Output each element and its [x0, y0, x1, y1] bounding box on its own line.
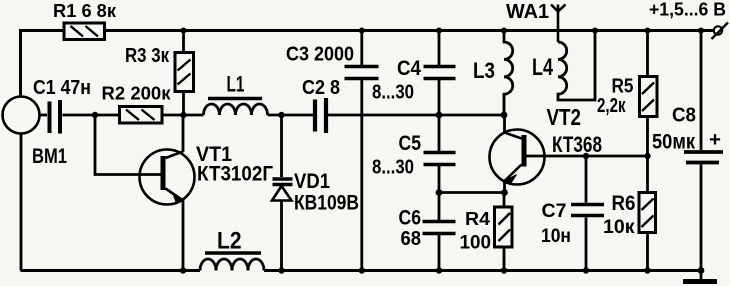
wire: VT2 base line: [527, 155, 648, 158]
svg-text:L3: L3: [473, 58, 495, 83]
svg-text:L4: L4: [532, 54, 553, 81]
capacitor C1: [40, 100, 120, 134]
capacitor C8 (electrolytic): [684, 31, 723, 271]
node B (R2/R3/VT1 collector/L1): [180, 112, 186, 118]
capacitor C7: [571, 156, 604, 271]
svg-text:100: 100: [460, 233, 492, 254]
resistor R3: [175, 53, 194, 92]
node: R5/R6/base junction: [644, 153, 650, 159]
node: VD1 top: [278, 112, 284, 118]
svg-text:50мк: 50мк: [652, 131, 695, 154]
svg-text:КТ368: КТ368: [552, 132, 602, 157]
svg-text:10к: 10к: [603, 217, 635, 238]
svg-text:+1,5...6 В: +1,5...6 В: [649, 0, 726, 20]
node: signal/C4 junction: [436, 112, 443, 119]
wire: bottom rail right: [264, 269, 704, 272]
node: L3 top rail: [501, 28, 507, 34]
node: C8 bottom rail: [698, 267, 705, 274]
svg-text:C5: C5: [399, 132, 422, 155]
node: C7 top: [583, 153, 589, 159]
transistor VT2: [490, 115, 545, 193]
antenna WA1: [551, 5, 566, 43]
battery negative terminal bar: [683, 271, 717, 282]
svg-text:R2 200к: R2 200к: [102, 84, 172, 104]
node: C3 top rail: [359, 28, 365, 34]
wire: node to VD1: [280, 115, 283, 177]
capacitor C6: [423, 193, 456, 271]
wire: C4 node to VT2 collector node: [439, 114, 504, 117]
varicap VD1: [272, 179, 293, 271]
resistor R6: [639, 156, 656, 271]
wire: R2 right to node B: [162, 114, 204, 117]
capacitor C2: [315, 98, 439, 133]
inductor L1: [204, 99, 268, 116]
node A (C1/R2/base junction): [92, 112, 98, 118]
node: L4 return on top rail: [592, 28, 598, 34]
svg-text:C3 2000: C3 2000: [286, 44, 354, 66]
node: C7 bottom rail: [583, 267, 589, 273]
node: VT2 emitter junction: [501, 189, 508, 196]
svg-text:10н: 10н: [541, 226, 571, 247]
node: C4 top rail: [436, 28, 442, 34]
svg-text:КТ3102Г: КТ3102Г: [197, 163, 273, 186]
terminal +1,5...6В (circle with slash): [712, 23, 729, 40]
node on top rail: R3 column: [181, 28, 187, 34]
svg-text:68: 68: [401, 228, 422, 250]
resistor R2: [120, 107, 163, 124]
node: C8 top rail: [698, 28, 704, 34]
svg-text:C2 8: C2 8: [302, 77, 340, 99]
svg-text:VT2: VT2: [547, 104, 582, 130]
node: C6 bottom rail: [436, 267, 442, 273]
svg-text:WA1: WA1: [506, 1, 549, 23]
node: VT1 emitter on bottom rail: [180, 267, 186, 273]
wire: bottom rail left: [21, 269, 201, 272]
wire: node A down to VT1 base: [95, 115, 161, 175]
resistor R5: [640, 31, 658, 157]
wire: top rail to R3: [182, 31, 185, 53]
inductor L2: [200, 253, 264, 271]
inductor L4: [558, 31, 595, 101]
capacitor C3 (supply bypass): [345, 31, 379, 271]
svg-text:ВМ1: ВМ1: [32, 145, 67, 168]
svg-text:R3 3к: R3 3к: [125, 45, 170, 67]
svg-text:R6: R6: [612, 192, 636, 215]
svg-text:L2: L2: [217, 228, 242, 255]
svg-text:R1 6 8к: R1 6 8к: [53, 1, 117, 21]
node: VD1 bottom rail: [278, 267, 284, 273]
resistor R1: [64, 23, 105, 40]
node: R4 bottom rail: [501, 267, 507, 273]
wire: top rail left segment: [21, 31, 65, 97]
svg-text:8...30: 8...30: [372, 157, 414, 179]
wire: to VT2 emitter: [439, 191, 505, 194]
node: R5 top rail: [645, 28, 651, 34]
svg-text:L1: L1: [227, 72, 245, 97]
node: C5/C6/emitter junction: [436, 189, 443, 196]
capacitor C4: [424, 31, 456, 116]
svg-text:2,2к: 2,2к: [597, 95, 626, 117]
svg-text:+: +: [709, 129, 721, 151]
microphone BM1: [3, 97, 40, 134]
wire: L1 to C2: [268, 114, 314, 117]
svg-text:8...30: 8...30: [372, 82, 414, 104]
svg-text:C8: C8: [672, 105, 696, 127]
svg-text:C7: C7: [542, 201, 567, 222]
wire: R3 bottom to node B: [182, 92, 185, 116]
transistor VT1: [140, 115, 195, 271]
svg-text:VD1: VD1: [294, 170, 330, 193]
svg-text:R4: R4: [465, 209, 490, 229]
inductor L3: [504, 31, 513, 116]
svg-text:C4: C4: [397, 57, 421, 80]
resistor R4: [495, 193, 513, 271]
node: collector/L3/signal junction: [501, 112, 508, 119]
node: C3 bottom rail: [359, 267, 365, 273]
capacitor C5: [424, 115, 456, 193]
svg-text:C6: C6: [399, 207, 422, 230]
svg-text:КВ109В: КВ109В: [294, 192, 359, 215]
node: R6 bottom rail: [644, 267, 650, 273]
wire: mic bottom to bottom rail: [20, 134, 23, 271]
wire: top rail main: [105, 29, 715, 32]
svg-text:C1 47н: C1 47н: [33, 77, 91, 99]
